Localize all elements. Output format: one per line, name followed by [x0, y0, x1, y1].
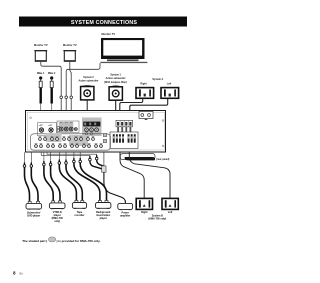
svg-text:Monitor TV: Monitor TV — [102, 32, 116, 36]
plug ring on TV2 cable — [65, 96, 68, 99]
monitor TV (large, top-right) — [100, 32, 147, 63]
panel misc small connector marks — [57, 126, 107, 142]
cable D1 right — [31, 152, 38, 203]
cable D2 right — [51, 152, 60, 203]
wire: TV2 to panel video jack — [70, 62, 71, 127]
AC inlet block — [139, 112, 153, 121]
svg-text:Mike 1: Mike 1 — [37, 72, 45, 75]
video jack strip on panel — [57, 121, 79, 133]
wire: panel jack to adapter (lower) — [47, 152, 104, 166]
svg-text:System 1: System 1 — [110, 74, 121, 77]
mike plug 1 — [37, 72, 45, 128]
wire: subwoofer 2 to panel — [86, 100, 88, 118]
mic jack box on panel — [38, 123, 57, 136]
amplifier rear panel — [26, 111, 166, 153]
svg-text:player: player — [100, 217, 107, 220]
speaker right (system A) — [136, 88, 154, 99]
shaded block (KMA-700 only) with terminal bar — [82, 118, 102, 137]
rounded jack area (bottom of panel) — [30, 133, 110, 150]
device 1: subwoofer/DVD player — [26, 201, 42, 217]
cable: panel to speaker B left — [129, 152, 170, 198]
svg-text:Active subwoofer: Active subwoofer — [79, 79, 99, 82]
wire: subwoofer 1 to speaker terminal — [115, 101, 118, 122]
svg-text:Active subwoofer: Active subwoofer — [106, 77, 126, 80]
monitor TV 1 (small, top-left) — [34, 43, 48, 62]
speaker right (system B) — [136, 198, 152, 214]
speaker left (system B) — [162, 198, 178, 214]
subwoofer system 2 (icon) — [81, 86, 94, 100]
wire: speaker A left to panel — [130, 99, 168, 121]
RCA jack row 1 — [39, 138, 95, 141]
device: power amplifier — [118, 203, 133, 217]
page number — [13, 270, 23, 275]
cable: panel to speaker B right — [120, 152, 144, 198]
adapter on power amp cable — [102, 166, 106, 172]
svg-text:System 2: System 2 — [83, 76, 94, 79]
cable D3 left — [59, 152, 76, 202]
subwoofer system 1 (label) — [104, 74, 127, 84]
wire: panel stub into adapter — [103, 152, 105, 166]
RCA jack row 2 — [35, 145, 103, 148]
cable D4 right — [80, 152, 106, 202]
wire: big TV to panel video jack — [66, 63, 100, 127]
screw top-right — [162, 119, 164, 121]
device 2: VTR/LD player — [49, 201, 65, 223]
svg-text:amplifier: amplifier — [120, 214, 130, 217]
svg-text:) is provided for KMA-700 only: ) is provided for KMA-700 only. — [57, 239, 101, 243]
screw bottom-right — [162, 145, 164, 147]
subwoofer system 1 (icon) — [109, 86, 122, 100]
svg-text:Left: Left — [167, 83, 172, 86]
wire: panel jack to adapter (upper) — [41, 152, 102, 169]
speaker terminal block (system A) — [116, 120, 133, 132]
svg-text:recorder: recorder — [75, 214, 85, 217]
plug ring on TV1 cable — [60, 96, 63, 99]
device 3: tape recorder — [72, 201, 86, 217]
cable D1 left — [25, 152, 30, 203]
screw top-left — [30, 117, 32, 119]
panel tiny jack labels row2 — [35, 142, 103, 145]
svg-text:System A: System A — [152, 78, 163, 81]
svg-text:only): only) — [54, 220, 60, 223]
svg-text:8: 8 — [13, 270, 16, 275]
svg-text:(rear panel): (rear panel) — [156, 158, 169, 161]
svg-text:(With lowpass filter): (With lowpass filter) — [104, 81, 127, 84]
speaker terminal block (system B) — [110, 132, 138, 149]
panel tiny labels above video jacks — [40, 122, 72, 125]
svg-text:En: En — [20, 272, 24, 275]
monitor TV 2 (small) — [63, 43, 77, 62]
svg-text:Right: Right — [141, 211, 147, 214]
plug collars above rings — [24, 155, 98, 165]
subwoofer system 2 (label) — [79, 76, 99, 83]
svg-text:The shaded part (: The shaded part ( — [22, 239, 47, 243]
svg-text:Right: Right — [140, 82, 146, 85]
plug rings bottom — [23, 157, 98, 167]
svg-text:Mike 2: Mike 2 — [48, 72, 56, 75]
unit foot — [120, 154, 155, 161]
cable D4 left — [74, 152, 100, 202]
svg-text:(KMA-700 only): (KMA-700 only) — [148, 218, 166, 221]
svg-text:DVD player: DVD player — [27, 214, 40, 217]
panel tiny jack labels row1 — [39, 135, 95, 138]
wire: speaker A right to panel — [120, 99, 143, 121]
speaker left (system A) — [161, 88, 179, 99]
title bar SYSTEM CONNECTIONS — [19, 17, 187, 27]
device 4: background music player — [96, 201, 111, 220]
cable D2 left — [44, 152, 53, 203]
mike plug 2 — [48, 72, 56, 128]
cable D3 right — [66, 152, 82, 202]
svg-text:Left: Left — [168, 211, 173, 214]
plug ring on big TV cable — [70, 96, 73, 99]
cable: adapter to power amplifier — [104, 172, 126, 203]
svg-text:SYSTEM CONNECTIONS: SYSTEM CONNECTIONS — [71, 20, 137, 26]
svg-text:Monitor TV: Monitor TV — [63, 43, 77, 47]
note: shaded part — [22, 237, 100, 243]
wire: TV1 to panel video jack — [41, 62, 61, 127]
label system B — [148, 215, 166, 221]
svg-text:Monitor TV: Monitor TV — [34, 43, 48, 47]
